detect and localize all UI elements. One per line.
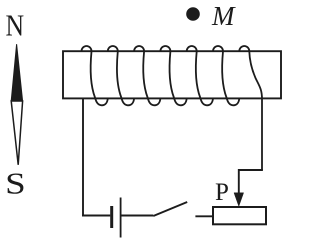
svg-text:N: N — [6, 8, 25, 43]
rheostat P body — [213, 207, 266, 224]
compass needle north half (filled) — [11, 44, 22, 101]
wire battery to switch — [122, 215, 154, 217]
wire left lead from solenoid down — [82, 99, 84, 216]
coil turn 4 — [160, 46, 186, 105]
point M dot — [186, 7, 200, 21]
svg-text:S: S — [5, 166, 26, 201]
coil turn 1 — [82, 46, 108, 105]
solenoid core (iron bar) — [63, 51, 281, 98]
coil turn 6 — [213, 46, 239, 105]
battery plate long (positive) — [120, 198, 122, 238]
wire bottom rail to battery — [82, 215, 110, 217]
svg-text:P: P — [215, 179, 229, 206]
coil turn 5 — [187, 46, 213, 105]
battery plate short (negative) — [110, 206, 113, 228]
compass needle south half (outline) — [11, 101, 22, 165]
switch lever (open) — [153, 202, 187, 216]
coil turn 7 into right lead — [239, 46, 262, 170]
wire jog toward wiper — [239, 170, 263, 195]
coil turn 3 — [134, 46, 160, 105]
wire switch to rheostat — [195, 215, 213, 217]
coil turn 2 — [108, 46, 134, 105]
wiper arrowhead — [234, 193, 244, 207]
svg-text:M: M — [211, 1, 236, 31]
